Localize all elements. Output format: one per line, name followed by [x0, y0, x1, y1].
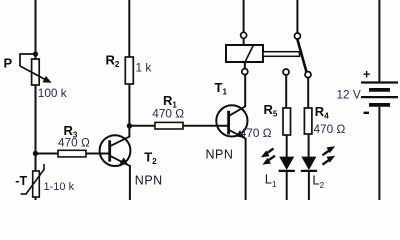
relay switch right contact	[305, 72, 311, 78]
relay coil top terminal	[241, 32, 247, 38]
label T2	[144, 150, 157, 167]
LED L2	[301, 157, 317, 171]
wire battery positive to edge	[378, 0, 380, 82]
label NPN (T1)	[206, 148, 234, 162]
wire junction to R3	[36, 153, 59, 155]
value 470 ohm (R3)	[58, 135, 90, 149]
label R3	[64, 123, 78, 140]
resistor R5 body	[283, 108, 291, 135]
battery plus sign	[363, 68, 370, 82]
wire terminal to coil	[243, 38, 245, 45]
svg-text:12 V: 12 V	[337, 88, 361, 102]
wire left contact to R5	[285, 75, 287, 108]
resistor R3 body	[58, 150, 86, 157]
svg-text:470 Ω: 470 Ω	[58, 135, 90, 149]
value 100 k	[38, 86, 67, 100]
wire supply feed to R2 top	[128, 0, 130, 57]
relay switch left contact	[283, 69, 289, 75]
relay switch pivot terminal	[294, 33, 300, 39]
battery minus sign	[364, 112, 370, 114]
wire battery negative to edge	[378, 107, 380, 200]
label R2	[106, 53, 120, 70]
label R4	[315, 104, 329, 121]
svg-text:NPN: NPN	[206, 148, 234, 162]
wire R5 to LED L1	[286, 135, 288, 157]
value 1-10 k	[44, 181, 75, 193]
svg-text:T1: T1	[215, 80, 228, 97]
svg-text:NPN: NPN	[135, 174, 163, 188]
wire R1 to T1 base	[183, 125, 229, 127]
wire junction to R1	[129, 125, 155, 127]
relay coil body	[226, 45, 263, 62]
wire LED L2 to edge	[308, 172, 310, 200]
label L2	[312, 172, 324, 190]
node wiper junction dot	[33, 51, 38, 56]
wire coil to bottom terminal	[244, 62, 246, 69]
svg-text:470 Ω: 470 Ω	[314, 122, 346, 136]
potentiometer P wiper arrow	[20, 54, 52, 83]
svg-text:P: P	[4, 56, 13, 71]
value 470 ohm (R4)	[314, 122, 346, 136]
svg-text:-T: -T	[15, 174, 27, 188]
resistor R2 body	[125, 57, 133, 84]
node junction dot R2/R1/T2	[127, 123, 132, 128]
LED L1	[279, 157, 295, 171]
relay switch armature	[297, 39, 306, 72]
svg-text:100 k: 100 k	[38, 86, 67, 100]
wire thermistor bottom to edge	[35, 197, 37, 200]
relay coil bottom terminal	[242, 69, 248, 75]
wire potentiometer bottom to thermistor	[35, 85, 37, 171]
resistor R1 body	[155, 122, 183, 129]
value 470 ohm (R1)	[152, 107, 184, 121]
wire R2 bottom to T2 collector	[128, 84, 130, 138]
label NPN (T2)	[135, 174, 163, 188]
svg-text:L1: L1	[265, 172, 277, 190]
svg-text:R5: R5	[264, 102, 278, 119]
potentiometer P body	[32, 59, 40, 85]
svg-text:1-10 k: 1-10 k	[44, 181, 75, 193]
label L1	[265, 172, 277, 190]
value 470 ohm (R5)	[240, 126, 272, 140]
wire T1 collector to relay coil	[244, 75, 246, 107]
svg-text:T2: T2	[144, 150, 157, 167]
svg-text:L2: L2	[312, 172, 324, 190]
wire supply feed to potentiometer top	[35, 0, 37, 59]
relay mechanical link bar	[263, 52, 300, 57]
label P	[4, 56, 13, 71]
resistor R4 body	[304, 108, 312, 134]
svg-text:1 k: 1 k	[136, 60, 152, 74]
wire T1 emitter to edge	[245, 138, 247, 200]
label -T	[15, 174, 27, 188]
wire switch common to edge	[296, 0, 298, 33]
wire relay coil top terminal to edge	[243, 0, 245, 32]
svg-text:R4: R4	[315, 104, 329, 121]
thermistor -T body	[21, 164, 45, 197]
LED L2 emission arrows	[323, 146, 336, 164]
label R1	[163, 93, 177, 110]
svg-text:R2: R2	[106, 53, 120, 70]
value 1 k	[136, 60, 152, 74]
wire R3 to T2 base	[86, 153, 110, 155]
wire T2 emitter to edge	[129, 165, 131, 200]
value 12 V	[337, 88, 361, 102]
wire LED L1 to edge	[286, 172, 288, 200]
wire R4 to LED L2	[308, 134, 310, 157]
node junction dot pot/thermistor/R3	[33, 151, 38, 156]
transistor T2	[100, 135, 131, 166]
battery B1 12V	[361, 83, 398, 105]
label T1	[215, 80, 228, 97]
svg-text:+: +	[363, 68, 370, 82]
LED L1 emission arrows	[261, 149, 275, 165]
label R5	[264, 102, 278, 119]
wire right contact to R4	[307, 78, 309, 108]
svg-text:470 Ω: 470 Ω	[240, 126, 272, 140]
transistor T1	[216, 105, 247, 138]
svg-text:470 Ω: 470 Ω	[152, 107, 184, 121]
